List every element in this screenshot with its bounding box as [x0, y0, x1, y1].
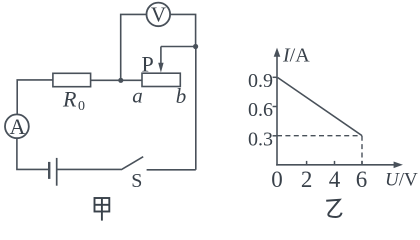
svg-text:4: 4 [329, 167, 341, 192]
svg-text:0: 0 [271, 167, 283, 192]
graph dashed guide horizontal at 0.3 [277, 135, 362, 137]
slider arrowhead [158, 63, 163, 73]
svg-text:2: 2 [301, 167, 313, 192]
svg-text:R: R [62, 87, 77, 112]
wire from voltmeter right down to slider net [170, 14, 195, 46]
svg-text:a: a [132, 84, 143, 108]
switch S blade [121, 157, 143, 170]
wire slider arrow stem [160, 47, 162, 64]
rheostat P body [142, 73, 180, 86]
svg-text:I/A: I/A [282, 44, 310, 66]
graph y ticks [273, 77, 277, 136]
graph X axis arrowhead [394, 162, 403, 169]
wire between R0 and rheostat [91, 79, 142, 81]
svg-text:b: b [176, 84, 187, 108]
svg-text:0.3: 0.3 [248, 129, 273, 151]
label yi (caption of graph) drawn strokes [326, 200, 341, 217]
svg-text:S: S [131, 170, 142, 192]
battery positive plate (long) [56, 158, 58, 186]
graph Y axis arrowhead [274, 48, 281, 57]
voltmeter V circle [147, 3, 171, 27]
svg-text:A: A [9, 114, 25, 139]
graph dashed guide vertical at 6 [361, 136, 363, 165]
wire switch right to corner [147, 169, 196, 171]
wire ammeter bottom down and right to battery [17, 138, 49, 169]
graph X axis [276, 164, 394, 166]
graph I-U line [278, 78, 362, 136]
battery negative plate (short) [48, 162, 50, 179]
node junction dot right (slider net joins right vertical wire) [193, 44, 198, 49]
wire from voltmeter left to R0-rheostat node [121, 14, 147, 80]
ammeter A circle [5, 114, 29, 138]
svg-text:U/V: U/V [385, 170, 418, 191]
svg-text:0: 0 [78, 99, 85, 114]
svg-text:6: 6 [356, 167, 368, 192]
wire battery to switch [57, 168, 121, 170]
svg-text:0.6: 0.6 [248, 99, 273, 121]
svg-text:P: P [142, 52, 154, 77]
graph Y axis [276, 55, 278, 166]
resistor R0 body [53, 73, 91, 86]
node junction dot left (voltmeter tap) [118, 78, 123, 83]
label jia (caption of circuit) drawn strokes [95, 198, 110, 221]
wire right vertical (corner up to slider junction) [195, 47, 197, 170]
svg-text:V: V [151, 3, 166, 27]
wire from R0 left down to ammeter [17, 80, 53, 115]
wire slider top horizontal [161, 46, 196, 48]
svg-text:0.9: 0.9 [248, 70, 273, 92]
graph x ticks [307, 161, 362, 165]
